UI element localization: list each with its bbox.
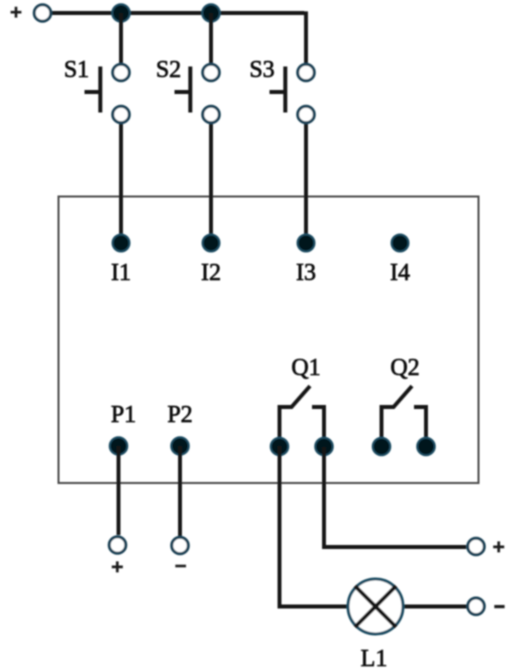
svg-text:P2: P2	[167, 402, 192, 428]
svg-text:S1: S1	[64, 57, 89, 83]
svg-text:L1: L1	[361, 646, 388, 672]
svg-text:I3: I3	[296, 260, 316, 286]
svg-text:I2: I2	[201, 260, 221, 286]
svg-text:P1: P1	[111, 402, 136, 428]
svg-text:Q2: Q2	[390, 355, 419, 381]
svg-text:Q1: Q1	[291, 355, 320, 381]
svg-text:S2: S2	[156, 57, 181, 83]
svg-text:S3: S3	[249, 57, 274, 83]
svg-text:I1: I1	[111, 260, 131, 286]
svg-text:I4: I4	[390, 260, 410, 286]
